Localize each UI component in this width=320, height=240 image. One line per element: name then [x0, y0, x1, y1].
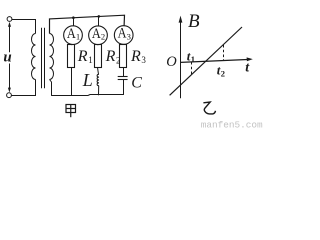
dashed line at t2	[223, 45, 225, 61]
svg-text:2: 2	[221, 69, 225, 79]
svg-text:t: t	[245, 60, 250, 75]
svg-text:L: L	[82, 70, 93, 90]
source voltage arrow down	[8, 64, 11, 93]
label t2	[217, 63, 225, 79]
transformer core	[42, 28, 45, 89]
graph B axis	[179, 16, 183, 99]
label t1	[187, 49, 195, 64]
svg-text:A: A	[67, 26, 76, 42]
svg-text:A: A	[118, 26, 127, 42]
caption 甲 (drawn glyph)	[66, 105, 76, 118]
svg-text:R: R	[77, 48, 88, 65]
graph t axis arrowhead	[247, 57, 253, 61]
graph t axis	[181, 59, 251, 62]
svg-text:C: C	[131, 75, 142, 92]
AC source bottom terminal	[7, 93, 12, 98]
wire R3 to C	[123, 68, 125, 77]
resistor R2	[95, 45, 102, 68]
wire top-left	[12, 20, 36, 34]
B(t) line	[170, 27, 242, 95]
svg-text:B: B	[188, 11, 200, 32]
source voltage arrow up	[8, 22, 11, 53]
wire A1 to R1	[71, 43, 74, 46]
caption 乙 (drawn glyph)	[203, 102, 215, 114]
dashed line at t1	[191, 62, 193, 75]
svg-text:R: R	[130, 48, 141, 65]
wire R1 to bottom bus	[71, 68, 73, 96]
svg-text:1: 1	[191, 54, 195, 64]
junction node above A1	[72, 16, 75, 19]
wire A2 to R2	[97, 44, 100, 46]
wire A3 to R3	[123, 43, 125, 45]
svg-text:2: 2	[101, 32, 105, 42]
capacitor C	[118, 77, 128, 80]
resistor R1	[68, 45, 75, 68]
svg-text:3: 3	[127, 32, 131, 42]
wire secondary bottom	[50, 80, 52, 96]
svg-text:manfen5.com: manfen5.com	[201, 119, 263, 129]
wire R2 to L	[98, 68, 99, 75]
resistor R3	[120, 45, 127, 68]
svg-text:3: 3	[141, 55, 146, 65]
transformer primary coil	[32, 34, 36, 80]
label R1	[77, 48, 93, 65]
wire L to bottom bus	[98, 86, 100, 95]
ammeter A3	[114, 26, 133, 45]
transformer secondary coil	[50, 34, 54, 80]
svg-text:A: A	[92, 26, 101, 42]
wire secondary top / top bus	[50, 15, 125, 33]
bottom bus wire	[52, 95, 124, 96]
svg-text:R: R	[105, 48, 116, 65]
label R2	[105, 48, 121, 65]
wire bottom-left	[11, 80, 35, 96]
inductor L	[97, 74, 99, 85]
ammeter A2	[89, 26, 108, 45]
ammeter A1	[64, 26, 83, 45]
svg-text:1: 1	[88, 55, 93, 65]
wire stub to A1	[73, 18, 75, 26]
svg-text:1: 1	[76, 32, 80, 42]
svg-text:O: O	[166, 54, 177, 70]
wire C to bottom bus	[123, 80, 125, 95]
junction node above A2	[98, 15, 101, 18]
svg-text:u: u	[3, 50, 11, 66]
label R3	[130, 48, 146, 65]
wire stub to A2	[98, 16, 100, 26]
AC source top terminal	[7, 17, 12, 22]
